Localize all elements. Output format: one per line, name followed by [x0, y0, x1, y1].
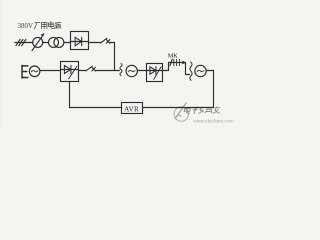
wire: [40, 70, 61, 72]
controlled rectifier box B2: [61, 62, 79, 82]
AC tilde inside exciter circle: [128, 70, 135, 71]
transformer T1 (two overlapping circles): [49, 37, 59, 47]
MK switch blade: [170, 59, 172, 65]
voltage regulator (circle with arrow): [33, 37, 43, 47]
arrow head: [182, 61, 186, 65]
wire + riser: [163, 63, 169, 71]
AVR box: [122, 103, 143, 114]
AC tilde inside source circle: [31, 71, 37, 72]
switch S1 x-mark: [106, 40, 109, 44]
drop to field winding: [186, 63, 190, 75]
brush bar with ticks: [169, 62, 185, 64]
AC tilde inside generator circle: [197, 70, 204, 71]
hanzi dian: [49, 22, 54, 29]
battery label E: [22, 65, 28, 78]
thyristor diode D2 inside B2: [61, 69, 79, 71]
thyristor diode D3 inside B3: [147, 70, 163, 72]
svg-text:www.elecfans.com: www.elecfans.com: [193, 119, 234, 125]
controlled rectifier box B3: [147, 64, 163, 82]
switch S2 blade: [86, 66, 92, 71]
control slash of D3: [154, 67, 161, 80]
AC source circle: [29, 66, 40, 77]
wire: [89, 42, 101, 44]
AC exciter circle: [126, 65, 137, 76]
wire: [64, 42, 71, 44]
wire to junction and exciter: [95, 70, 119, 72]
watermark hanzi 电子发烧友: [184, 107, 221, 114]
hanzi yuan: [54, 23, 61, 29]
svg-text:380V: 380V: [18, 22, 34, 30]
label MK: [168, 52, 179, 59]
svg-text:AVR: AVR: [124, 105, 139, 113]
left scan edge smudge: [0, 0, 2, 128]
three-phase slashes: [16, 40, 26, 46]
wire row1 left: [15, 42, 33, 44]
diode D1 inside B1: [71, 41, 89, 43]
svg-text:MK: MK: [168, 52, 179, 59]
switch S2 x-mark: [92, 67, 96, 71]
control slash of D2: [69, 66, 77, 79]
wire right, down to AVR: [143, 71, 214, 108]
wire bend down to row 2: [110, 43, 115, 71]
wire from B2 drop to AVR: [70, 107, 122, 109]
wire down from B2 to AVR line: [69, 82, 71, 108]
switch S1 blade: [101, 38, 107, 43]
wire: [137, 70, 146, 72]
watermark logo swoosh: [174, 103, 188, 122]
wire: [79, 70, 87, 72]
wire: [43, 42, 49, 44]
label 380V plant supply text: [18, 22, 34, 30]
rectifier box B1: [71, 32, 89, 50]
generator circle: [195, 65, 206, 76]
generator field squiggle: [190, 62, 192, 80]
hanzi chang: [34, 23, 40, 29]
regulator adjust arrow: [32, 35, 43, 50]
hanzi yong: [42, 22, 47, 28]
exciter field squiggle: [120, 64, 122, 76]
